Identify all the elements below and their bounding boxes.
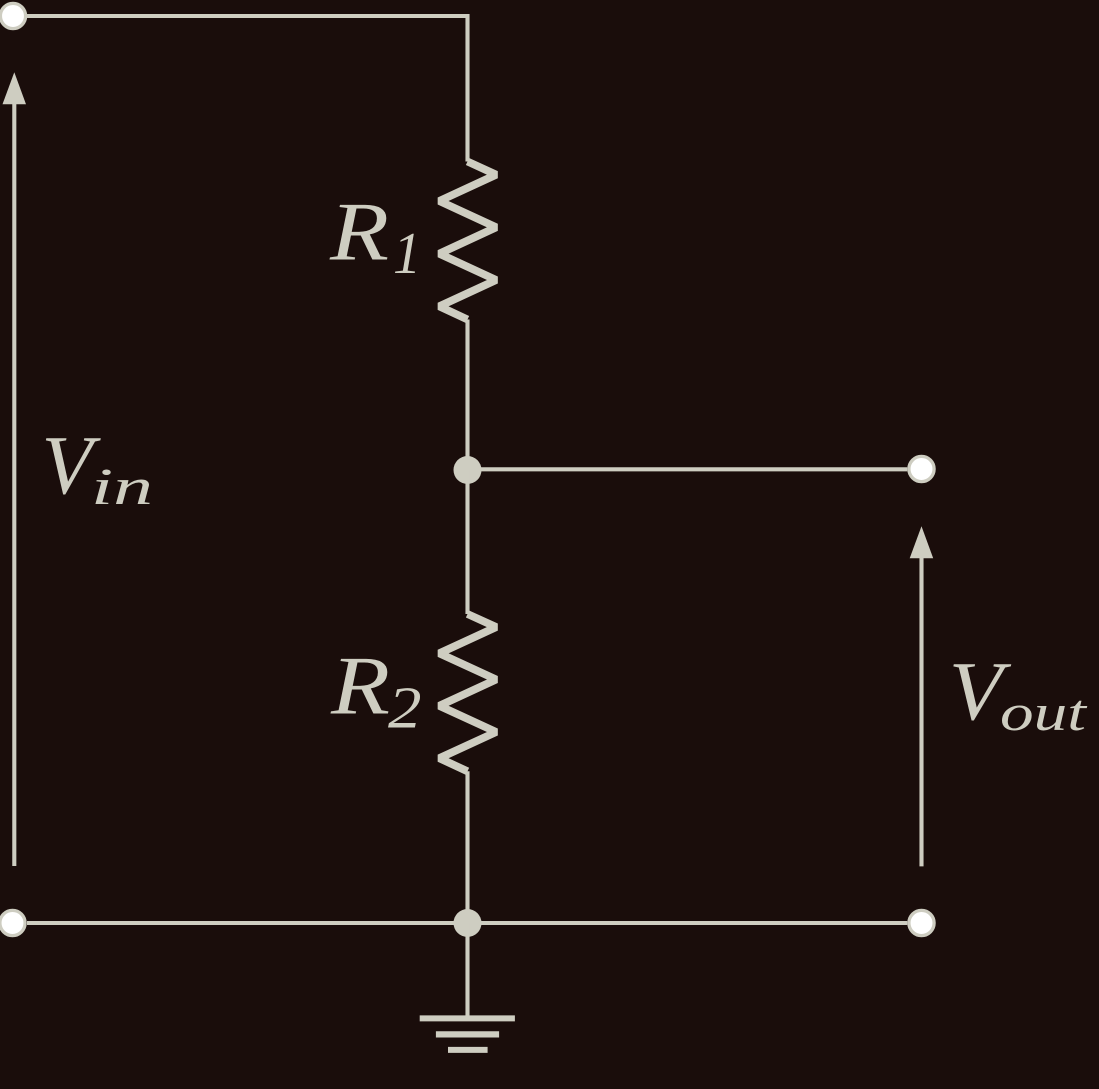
V_out arrow (shaft) [919,554,923,866]
terminal: V_in top (open circle) [0,3,25,28]
resistor R2 [439,614,496,771]
terminal: V_in bottom (open circle) [0,910,25,935]
ground node junction dot [454,909,482,937]
wire R2 bottom to ground node [465,771,469,923]
terminal: V_out bottom (open circle) [909,910,934,935]
resistor R1 [439,162,496,320]
svg-text:out: out [1000,685,1088,742]
V_out arrow (head) [910,526,934,558]
wire bottom rail [27,921,907,925]
svg-text:R: R [329,186,389,279]
wire R1 bottom to node A [465,320,469,471]
wire node A to resistor R2 [465,470,469,614]
svg-text:in: in [91,459,153,516]
V_in arrow (shaft) [12,100,16,866]
svg-text:2: 2 [388,675,422,741]
terminal: V_out top (open circle) [909,456,934,481]
wire top rail: V_in top terminal to resistor R1 [27,16,468,162]
node A junction dot [454,456,482,484]
V_in arrow (head) [3,72,27,104]
svg-text:1: 1 [393,220,421,286]
svg-text:R: R [330,640,390,733]
wire node A to V_out top terminal [468,467,908,471]
ground [420,923,515,1050]
